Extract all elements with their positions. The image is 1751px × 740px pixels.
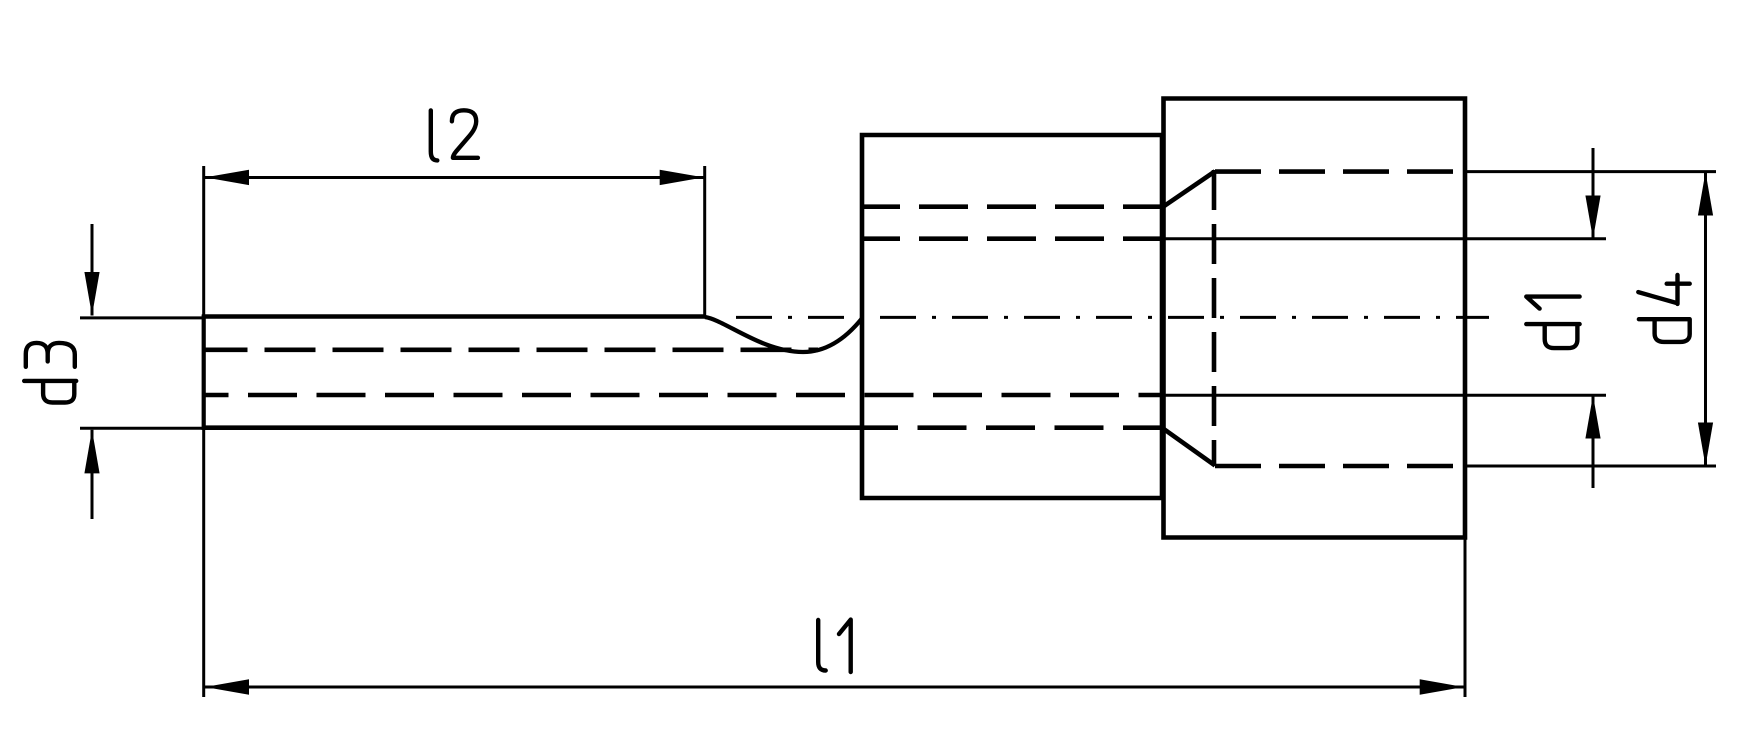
dimension line d1 upper segment [1592,148,1595,239]
pin left edge [202,315,206,431]
d4 lower extension line [1464,465,1716,468]
barrel upper inner hidden line [862,236,1162,241]
d4 upper extension line [1464,170,1716,173]
arrowhead d3 top [84,272,99,316]
funnel bottom chamfer diagonal [1162,428,1215,466]
wire pin left extension line (l2/l1) [202,166,205,697]
dimension line l2 [204,176,705,179]
pin top edge [202,314,706,319]
dimension line l1 [204,686,1465,689]
pin neck transition curve [705,317,862,352]
sleeve bore vertical hidden line [1212,170,1217,466]
arrowhead d4 top [1698,172,1713,216]
label d1 (rotated) [1526,297,1579,349]
arrowhead d4 bottom [1698,423,1713,467]
label d4 (rotated) [1638,275,1689,342]
l2 right extension line [703,166,706,317]
pin bottom edge [202,425,898,430]
dimension line d4 [1704,172,1707,466]
funnel top chamfer diagonal [1162,171,1215,207]
label l1 [818,620,851,672]
insulation sleeve outline (large rectangle) [1164,99,1466,538]
barrel upper outer hidden line [862,204,1162,209]
l1 right extension line [1464,539,1467,697]
pin upper hidden (dashed) line [204,347,819,352]
arrowhead d3 bottom [84,430,99,474]
d3 top extension line [80,316,204,319]
arrowhead l2 left [205,170,249,185]
arrowhead d1 top [1585,196,1600,239]
d1 lower extension line [1163,394,1606,397]
dimension line d1 lower segment [1592,395,1595,488]
d3 bottom extension line [80,427,204,430]
d1 upper extension line [1163,237,1606,240]
label l2 [431,110,478,160]
arrowhead l2 right [660,170,704,185]
label d3 (rotated) [24,343,76,403]
barrel lower outer hidden line [898,425,1162,430]
dimension line d3 upper segment [91,224,94,316]
sleeve bore top hidden line [1215,169,1464,174]
dimension line d3 lower segment [91,430,94,519]
arrowhead d1 bottom [1585,395,1600,438]
arrowhead l1 left [205,679,249,694]
arrowhead l1 right [1420,679,1464,694]
crimp barrel outline (middle rectangle) [862,135,1162,498]
centerline (dash-dot axis) [736,316,1489,319]
pin/barrel lower hidden (dashed) line [204,393,1163,398]
sleeve bore bottom hidden line [1215,464,1464,469]
